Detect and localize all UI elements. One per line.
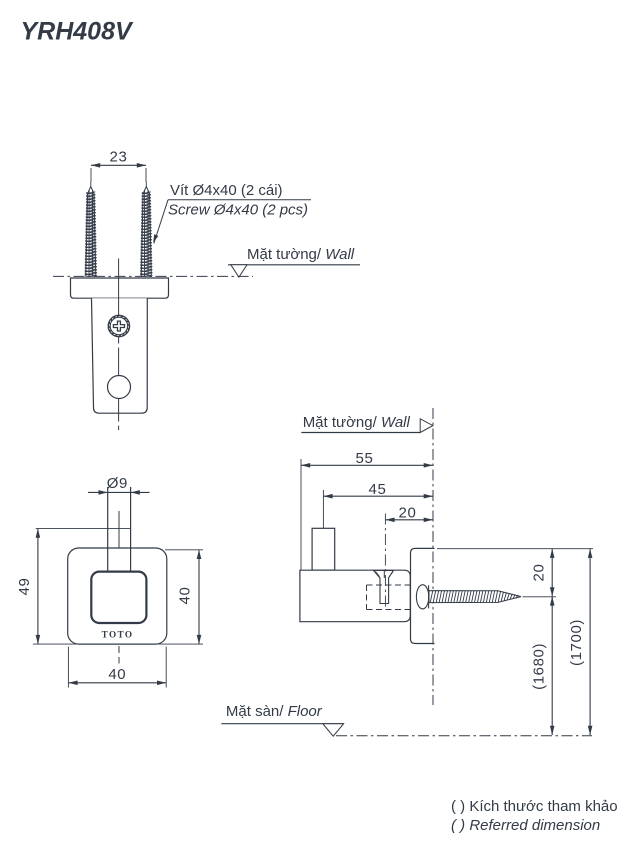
svg-text:Mặt tường/ Wall: Mặt tường/ Wall — [303, 414, 411, 431]
footnote referred dimension — [451, 798, 618, 834]
dimension 20 (top to screw) — [531, 549, 555, 597]
svg-text:23: 23 — [110, 148, 128, 165]
dimension 45 (peg center) — [323, 481, 433, 528]
dimension 49 (height) — [16, 529, 203, 645]
label Mat tuong / Wall (side view) — [301, 414, 433, 433]
svg-text:20: 20 — [399, 505, 417, 522]
svg-text:TOTO: TOTO — [102, 630, 134, 640]
hole (bottom of body) — [108, 376, 131, 399]
dimension 20 (screw center from wall) — [385, 505, 433, 523]
title YRH408V — [21, 18, 134, 46]
svg-text:Screw Ø4x40 (2 pcs): Screw Ø4x40 (2 pcs) — [168, 202, 308, 219]
extension line bracket top — [437, 548, 593, 550]
inner square (hook arm) — [91, 572, 146, 623]
wall centerline (top view) — [53, 275, 253, 277]
phillips screw head — [108, 315, 129, 336]
screw left (vit 4x40) — [85, 182, 97, 277]
floor centerline — [336, 735, 592, 737]
dimension (1680) floor to screw — [531, 596, 555, 735]
screw right (vit 4x40) — [140, 182, 152, 277]
centerline (top view body) — [118, 259, 120, 431]
svg-text:40: 40 — [177, 587, 194, 605]
dimension Ø9 (peg) — [88, 475, 150, 495]
extension line at screw level — [523, 596, 557, 598]
label Mat san / Floor — [221, 703, 343, 736]
dimension 55 (depth) — [301, 450, 433, 570]
svg-text:Mặt sàn/ Floor: Mặt sàn/ Floor — [226, 703, 323, 720]
dimension 40 (square width) — [68, 647, 166, 688]
dimension 40 (square height) — [165, 550, 203, 644]
centerline (front view) — [118, 511, 120, 664]
svg-text:49: 49 — [16, 578, 33, 596]
bracket flange (side) — [71, 278, 169, 298]
dimension (1700) floor to top — [568, 549, 592, 735]
hidden cavity (dashed) — [367, 585, 411, 610]
svg-text:40: 40 — [108, 666, 126, 683]
peg (side view) — [312, 528, 335, 570]
hook body (side, top view) — [92, 298, 148, 413]
wall plane centerline (side view) — [432, 408, 434, 705]
svg-text:( ) Referred dimension: ( ) Referred dimension — [451, 817, 600, 834]
callout screw Ø4x40 leader — [153, 182, 311, 244]
svg-text:Vít Ø4x40 (2 cái): Vít Ø4x40 (2 cái) — [170, 182, 283, 199]
svg-text:45: 45 — [369, 481, 387, 498]
peg inside square — [108, 548, 131, 572]
svg-text:( ) Kích thước tham khảo: ( ) Kích thước tham khảo — [451, 798, 618, 815]
label Mat tuong / Wall (top view) — [228, 246, 360, 277]
dimension 23 (screw spacing) — [91, 148, 146, 182]
TOTO logo — [102, 630, 134, 640]
svg-text:Mặt tường/ Wall: Mặt tường/ Wall — [247, 246, 355, 263]
set screw centerline — [384, 514, 386, 611]
set screw (side view) — [374, 570, 394, 603]
hook arm (side view) — [300, 570, 410, 622]
svg-text:20: 20 — [531, 564, 548, 582]
wall bracket (side view) — [411, 548, 435, 643]
outer square 40x40 (front) — [68, 548, 167, 644]
mounting screw (horizontal) — [416, 585, 521, 609]
svg-text:Ø9: Ø9 — [107, 475, 128, 492]
svg-text:(1700): (1700) — [568, 619, 585, 666]
svg-text:(1680): (1680) — [531, 643, 548, 690]
svg-text:55: 55 — [356, 450, 374, 467]
peg outline (front) — [108, 487, 131, 572]
svg-text:YRH408V: YRH408V — [21, 18, 134, 46]
